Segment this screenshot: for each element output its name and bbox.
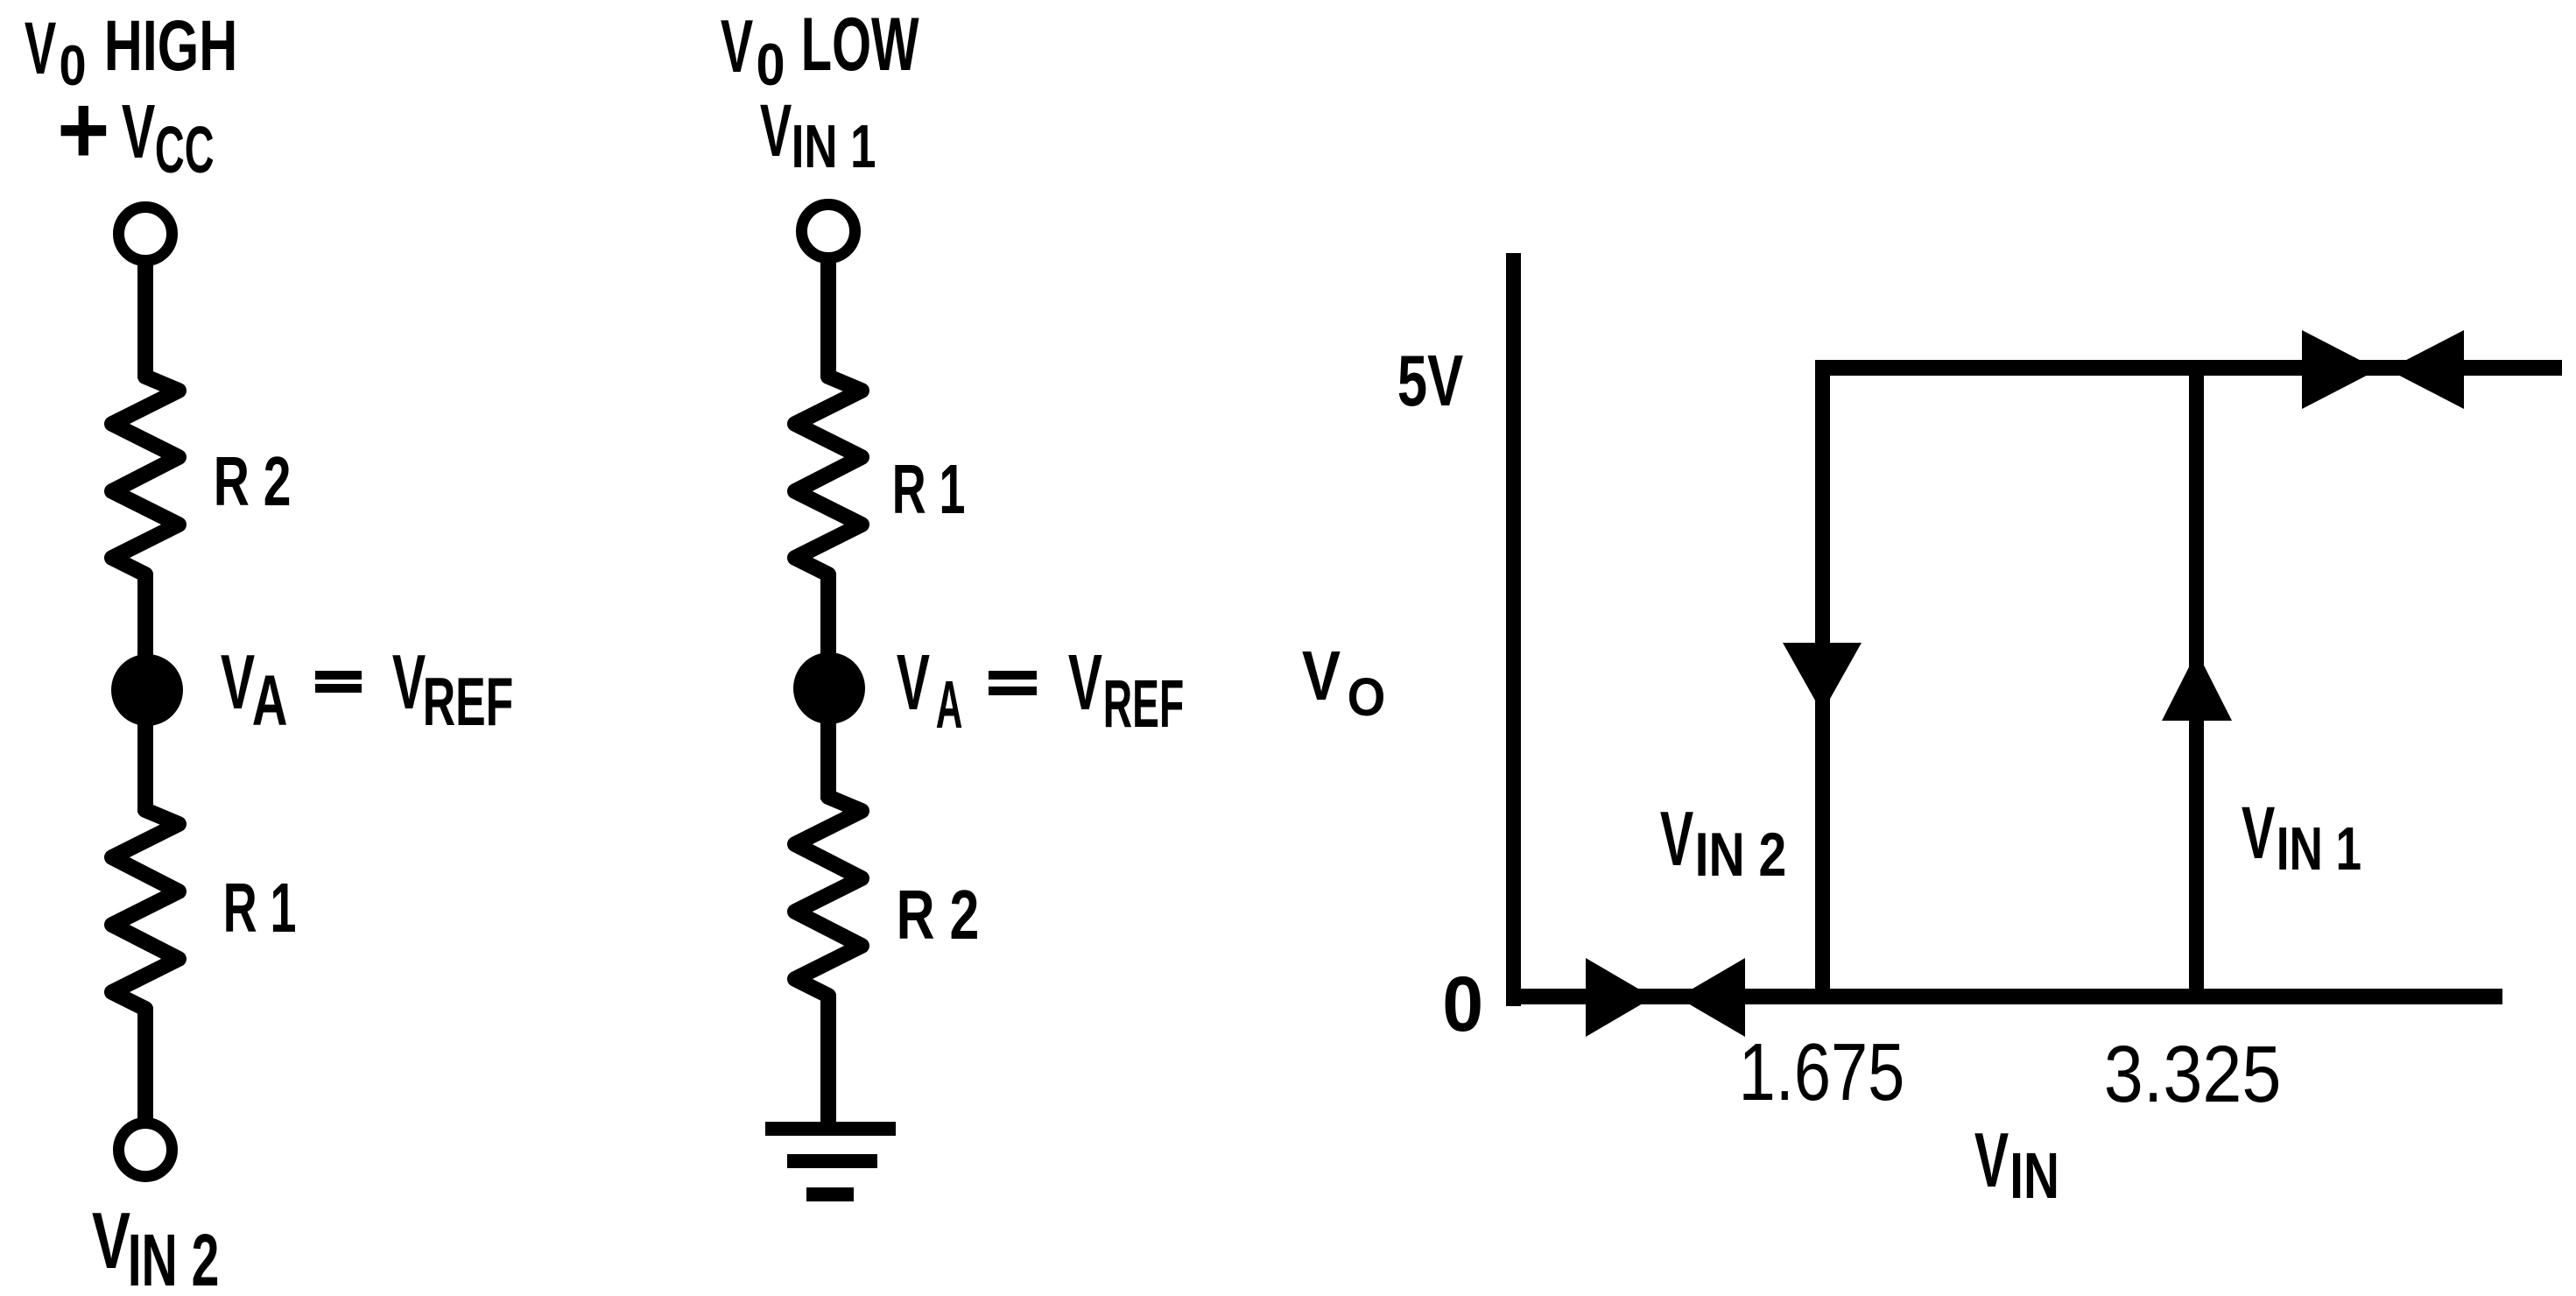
svg-text:IN: IN [2009,1139,2059,1212]
svg-text:LOW: LOW [801,3,919,87]
terminal VO HIGH (open circle) [119,208,172,261]
label VO (y axis name) [1302,637,1385,727]
svg-text:IN 1: IN 1 [792,112,876,180]
svg-text:V: V [897,639,930,727]
svg-text:0: 0 [1442,961,1483,1047]
svg-text:+: + [57,75,109,185]
svg-text:V: V [1068,639,1102,727]
node A junction dot (middle divider) [793,652,865,724]
resistor R1 (left) [112,810,179,1009]
label VA = VREF (left) [221,638,513,741]
resistor R2 (middle) [795,797,862,996]
svg-text:V: V [392,638,426,725]
label VIN 1 (terminal name) [760,89,876,180]
label VO HIGH [25,6,237,97]
svg-text:V: V [221,638,255,725]
svg-text:REF: REF [1103,666,1184,742]
svg-text:0: 0 [757,32,785,98]
down arrowhead on VIN2 transition [1783,643,1862,713]
svg-text:V: V [1974,1116,2009,1203]
label VIN 1 (graph curve) [2242,792,2361,883]
5V output level line [1815,360,2562,376]
hysteresis vertical transition at 3.325 (rising, VIN1) [2189,360,2204,1004]
svg-text:IN 2: IN 2 [128,1219,220,1296]
label VIN (x axis name) [1974,1116,2059,1212]
svg-text:V: V [122,89,155,174]
wire terminal to R2 [137,263,153,378]
wire R2 to ground [820,994,836,1123]
wire terminal to R1 [820,260,836,378]
label VIN 2 (graph curve) [1660,795,1786,889]
svg-text:O: O [1348,667,1386,727]
y axis (VO) [1506,253,1521,1006]
svg-text:V: V [2242,792,2275,874]
terminal VIN1 (open circle) [802,205,855,258]
hysteresis vertical transition at 1.675 (falling, VIN2) [1815,360,1830,1004]
arrowheads (bowtie) on x axis segment [1586,958,1745,1037]
svg-text:A: A [252,662,288,741]
svg-text:1.675: 1.675 [1739,1026,1905,1117]
wire node A to R1 [137,722,153,813]
terminal VIN2 (open circle) [119,1123,172,1177]
svg-text:A: A [936,667,963,743]
resistor R1 (middle) [795,377,862,574]
svg-text:REF: REF [423,663,514,740]
node A junction dot (left divider) [111,654,183,726]
svg-text:R 1: R 1 [892,450,966,528]
svg-text:V: V [92,1196,130,1285]
svg-text:R 2: R 2 [214,441,292,520]
label VIN 2 (terminal name) [92,1196,220,1296]
label VO LOW [721,3,919,98]
wire R1 to node A [820,573,836,657]
wire R2 to node A [137,573,153,659]
label +VCC [57,75,214,187]
svg-text:V: V [1660,795,1693,882]
svg-text:HIGH: HIGH [104,6,238,86]
ground symbol [765,1122,896,1201]
svg-text:CC: CC [155,113,215,187]
svg-text:R 1: R 1 [223,869,297,947]
svg-text:V: V [1302,637,1341,715]
svg-text:V: V [760,89,792,172]
svg-text:IN 2: IN 2 [1695,821,1787,889]
svg-text:V: V [25,7,56,89]
wire node A to R2 [820,720,836,799]
svg-text:IN 1: IN 1 [2277,814,2361,883]
svg-text:R 2: R 2 [897,875,980,954]
svg-text:3.325: 3.325 [2104,1030,2282,1119]
up arrowhead on VIN1 transition [2162,652,2232,721]
svg-text:5V: 5V [1397,340,1463,421]
resistor R2 (left) [112,377,179,574]
label VA = VREF (middle) [897,639,1184,743]
x axis (VIN) [1506,989,2502,1004]
svg-text:V: V [721,5,753,88]
wire R1 to VIN2 terminal [137,1007,153,1121]
arrowheads (bowtie) on 5V line segment [2302,330,2464,409]
